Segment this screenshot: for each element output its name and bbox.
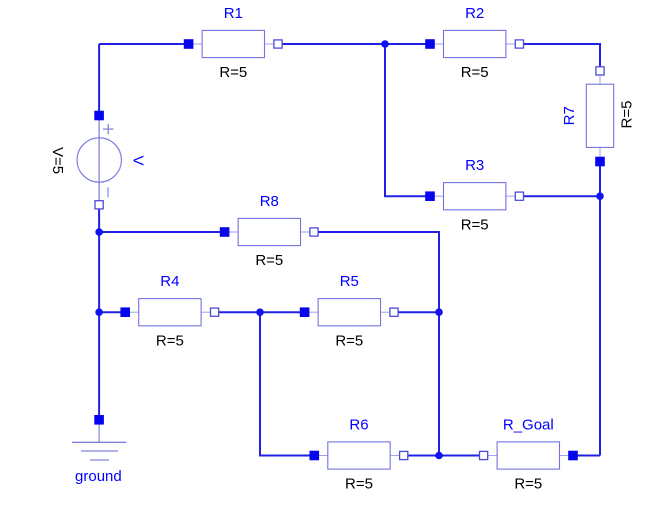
wire: node H to R5 left pin [260,311,305,313]
svg-text:R1: R1 [224,5,243,22]
node C junction (R7-R3-right column) [596,192,604,200]
wire: R6 right pin to node G [404,455,439,457]
V plus sign [103,128,113,130]
wire: R1 right pin to node B [278,43,385,45]
node H junction (R4-R5-R6 branch) [256,308,264,316]
resistor R6 [310,442,408,469]
svg-text:R3: R3 [465,157,484,174]
svg-text:ground: ground [75,468,122,485]
wire: R_Goal right pin to right column corner [574,455,601,457]
wire: R7 bottom pin down to node C [599,162,601,197]
svg-text:R2: R2 [465,5,484,22]
node D junction (V minus / R8) [95,228,103,236]
wire: voltage source V minus pin down to node D [98,205,100,232]
wire: right column, node C down to R_Goal right wire corner [599,196,601,455]
svg-text:R=5: R=5 [461,216,489,233]
svg-text:R=5: R=5 [461,64,489,81]
wire: node E down to ground pin [98,312,100,417]
svg-text:V: V [129,155,146,165]
wire: node B down and right to R3 left pin [385,44,430,196]
wire: R3 right pin to node C [519,195,600,197]
node E junction (left column / R4) [95,308,103,316]
ground symbol [72,415,127,460]
wire: R8 right pin right then down to node F [313,232,439,312]
svg-text:R=5: R=5 [335,332,363,349]
svg-text:R8: R8 [260,193,279,210]
resistor R5 [300,299,398,326]
wire: node F down to node G [438,312,440,455]
svg-text:R=5: R=5 [345,476,373,493]
wire: node A to R1 left pin [99,43,189,45]
svg-text:R=5: R=5 [255,252,283,269]
svg-text:R6: R6 [349,417,368,434]
wire: node D to R8 left pin [99,231,224,233]
resistor R8 [220,218,318,245]
node F junction (R8-R5 right) [435,308,443,316]
wire: node H down then right to R6 left pin [260,312,314,455]
svg-text:R=5: R=5 [618,101,635,129]
svg-text:R5: R5 [340,273,359,290]
node B junction (R1-R2-R3) [381,40,389,48]
wire: node B to R2 left pin [385,43,430,45]
resistor R1 [184,30,282,57]
svg-text:R4: R4 [160,273,179,290]
resistor R2 [425,30,523,57]
resistor R4 [120,299,218,326]
wire: node D down to node E [98,232,100,312]
resistor R_Goal [480,442,578,469]
voltage source V (V=5), vertical, plus on top [77,111,121,209]
resistor R7 (vertical) [586,67,613,167]
wire: node E to R4 left pin [99,311,125,313]
svg-text:R_Goal: R_Goal [503,417,554,434]
V minus sign [107,187,109,197]
wire: node G to R_Goal left pin [439,455,483,457]
wire: left column top, node A down to voltage source V plus pin [98,44,100,112]
wire: R4 right pin to node H [215,311,260,313]
svg-text:R=5: R=5 [156,332,184,349]
resistor R3 [425,183,523,210]
svg-text:R=5: R=5 [514,476,542,493]
wire: R5 right pin to node F [394,311,439,313]
svg-text:V=5: V=5 [49,147,66,174]
node G junction (R6-R_Goal) [435,452,443,460]
svg-text:R=5: R=5 [219,64,247,81]
svg-text:R7: R7 [561,106,578,125]
wire: R2 right pin to right column corner and down to R7 top pin [519,44,600,67]
